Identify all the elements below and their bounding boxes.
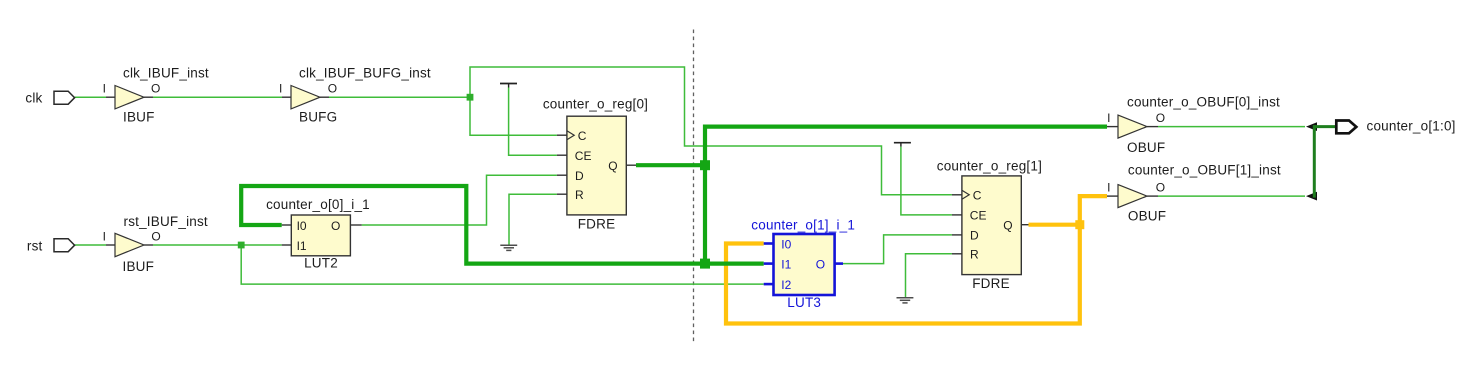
svg-text:counter_o[1]_i_1: counter_o[1]_i_1	[751, 218, 855, 233]
svg-text:Q: Q	[1003, 219, 1012, 233]
wire clk_IBUF net (IBUF O to BUFG I)	[153, 96, 282, 98]
svg-text:I: I	[1107, 111, 1110, 125]
wire OBUF0 O to bus ripper	[1158, 126, 1305, 128]
junction counter_o_OBUF[0] net lower	[700, 259, 710, 269]
svg-text:Q: Q	[608, 159, 617, 173]
wire VCC const1 to FDRE1 CE	[901, 147, 952, 215]
wire LUT2 O to FDRE0 D	[362, 175, 557, 225]
buffer counter_o_OBUF[1]_inst OBUF	[1107, 195, 1118, 197]
wire FDRE0 Q to junction	[636, 163, 705, 167]
svg-text:CE: CE	[970, 209, 987, 223]
svg-text:I: I	[279, 82, 282, 96]
svg-text:LUT3: LUT3	[787, 295, 821, 310]
svg-text:rst: rst	[27, 239, 43, 254]
svg-text:clk_IBUF_inst: clk_IBUF_inst	[123, 66, 209, 81]
svg-text:clk_IBUF_BUFG_inst: clk_IBUF_BUFG_inst	[299, 66, 431, 81]
svg-text:counter_o_reg[1]: counter_o_reg[1]	[937, 158, 1042, 173]
svg-text:OBUF: OBUF	[1128, 209, 1166, 224]
svg-text:IBUF: IBUF	[123, 109, 155, 124]
clock pin arrow FDRE1	[962, 190, 969, 199]
svg-text:clk: clk	[25, 90, 42, 105]
svg-text:O: O	[331, 219, 340, 233]
svg-text:I: I	[103, 230, 106, 244]
svg-text:counter_o[0]_i_1: counter_o[0]_i_1	[266, 197, 370, 212]
buffer clk_IBUF_inst IBUF	[106, 96, 115, 98]
svg-text:O: O	[328, 82, 337, 96]
svg-text:C: C	[578, 129, 587, 143]
junction counter_o_OBUF[0] net at Q	[700, 160, 710, 170]
wire rst port to IBUF	[75, 244, 106, 246]
ground GND for FDRE0 R	[500, 245, 517, 250]
svg-text:counter_o_OBUF[0]_inst: counter_o_OBUF[0]_inst	[1127, 94, 1280, 109]
buffer rst_IBUF_inst IBUF	[106, 244, 115, 246]
wire VCC const1 to FDRE0 CE	[509, 88, 557, 156]
svg-text:I: I	[103, 82, 106, 96]
svg-text:O: O	[151, 230, 160, 244]
svg-text:O: O	[151, 82, 160, 96]
svg-text:R: R	[575, 188, 584, 202]
junction rst_IBUF net	[238, 242, 245, 249]
power VCC const1 for FDRE0 CE	[500, 83, 517, 85]
svg-text:I1: I1	[297, 239, 307, 253]
svg-text:O: O	[1156, 181, 1165, 195]
output port counter_o[1:0]	[1336, 121, 1356, 134]
flip-flop counter_o_reg[0] FDRE	[557, 134, 567, 136]
clock pin arrow FDRE0	[567, 131, 574, 140]
bus ripper arrow counter_o[0]	[1306, 122, 1317, 131]
bus counter_o[1:0] dark green	[1313, 125, 1316, 198]
wire counter_o_OBUF[0] net vertical and to OBUF0 I	[705, 127, 1107, 264]
wire FDRE1 Q to amber junction	[1029, 223, 1080, 227]
svg-text:counter_o_reg[0]: counter_o_reg[0]	[543, 97, 648, 112]
buffer clk_IBUF_BUFG_inst BUFG	[282, 96, 291, 98]
wire OBUF1 O to bus ripper	[1158, 195, 1305, 197]
wire GND const0 to FDRE1 R	[906, 254, 952, 297]
wire LUT3 O to FDRE1 D	[843, 235, 952, 264]
svg-text:I2: I2	[781, 278, 791, 292]
power VCC const1 for FDRE1 CE	[894, 142, 911, 144]
svg-text:FDRE: FDRE	[972, 276, 1010, 291]
wire counter_o_OBUF[0] net thick green loop (LUT2 I0 to LUT3 I1)	[241, 186, 764, 264]
wire clk_IBUF_BUFG net (BUFG O to junction)	[329, 96, 470, 98]
svg-text:R: R	[970, 248, 979, 262]
buffer counter_o_OBUF[0]_inst OBUF	[1107, 126, 1118, 128]
flip-flop counter_o_reg[1] FDRE	[952, 194, 962, 196]
svg-text:O: O	[816, 257, 825, 271]
svg-text:counter_o[1:0]: counter_o[1:0]	[1367, 118, 1456, 133]
svg-text:O: O	[1156, 111, 1165, 125]
wire rst_IBUF net (IBUF O to LUT2 I1)	[153, 244, 282, 246]
junction counter_o_OBUF[1] net	[1075, 220, 1084, 229]
svg-text:FDRE: FDRE	[578, 217, 616, 232]
svg-text:CE: CE	[575, 149, 592, 163]
svg-text:OBUF: OBUF	[1127, 140, 1165, 155]
svg-text:C: C	[973, 189, 982, 203]
svg-text:rst_IBUF_inst: rst_IBUF_inst	[124, 214, 208, 229]
svg-text:I1: I1	[781, 257, 791, 271]
svg-text:LUT2: LUT2	[304, 255, 338, 270]
svg-text:BUFG: BUFG	[299, 109, 337, 124]
svg-text:IBUF: IBUF	[123, 259, 155, 274]
svg-text:I: I	[1107, 181, 1110, 195]
junction clk_IBUF_BUFG net	[467, 94, 474, 101]
ground GND for FDRE1 R	[897, 298, 914, 303]
wire rst_IBUF net long branch to LUT3 I2	[241, 245, 764, 284]
svg-text:D: D	[970, 229, 979, 243]
svg-text:I0: I0	[297, 219, 307, 233]
wire clk port to IBUF	[75, 96, 106, 98]
bus ripper arrow counter_o[1]	[1306, 192, 1317, 201]
page separator dashed line	[693, 30, 695, 345]
wire clock net routing to FDRE C pins	[470, 67, 952, 195]
LUT2 counter_o[0]_i_1	[282, 224, 292, 226]
svg-text:I0: I0	[781, 237, 791, 251]
LUT3 counter_o[1]_i_1 (selected, blue)	[764, 244, 843, 285]
svg-text:counter_o_OBUF[1]_inst: counter_o_OBUF[1]_inst	[1128, 163, 1281, 178]
wire GND const0 to FDRE0 R	[509, 194, 557, 245]
svg-text:D: D	[575, 169, 584, 183]
wire counter_o_OBUF[1] net amber loop (LUT3 I0, OBUF1 I, FDRE1 Q)	[726, 196, 1107, 323]
